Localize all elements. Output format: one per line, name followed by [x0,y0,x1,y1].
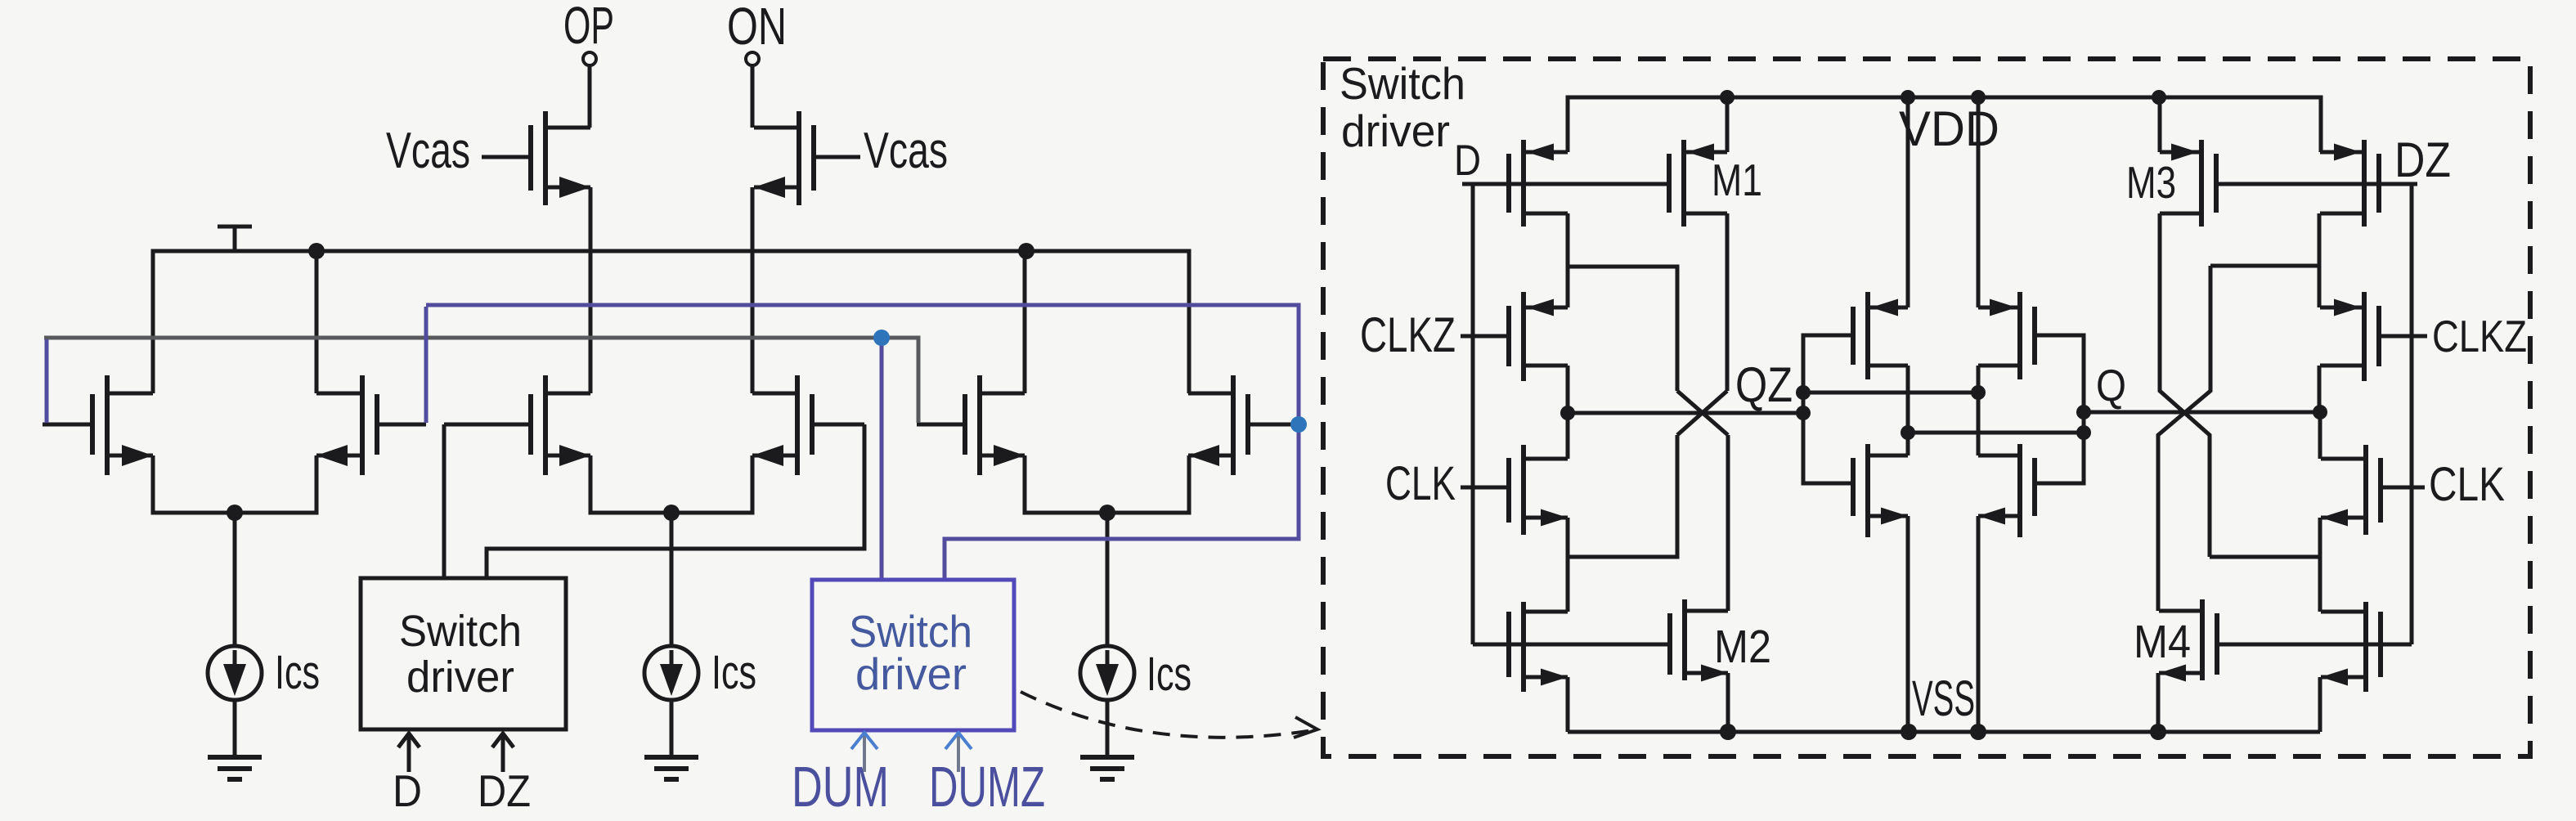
wire NR source down [1977,516,1981,732]
junction rail-pair1R [308,243,325,259]
transistor M4 NMOS [2215,643,2219,647]
wire driver1 pin2 to pair2R gate [487,424,864,578]
junction latch left out [1901,425,1915,440]
transistor cascode ON (Vcas) [814,155,860,159]
wire shared gate D row [1473,643,1668,647]
wire M1 source to VDD [1726,97,1730,152]
junction VSS M4 [2150,724,2166,740]
wire DZN source to VSS [2318,677,2322,732]
svg-text:M3: M3 [2126,157,2176,208]
transistor M3 PMOS [2216,182,2218,186]
wire CLKNR source path [2210,518,2320,557]
wire inverter2 out [2210,213,2319,307]
wire M4 source down [2156,673,2161,732]
wire CLKZPR drain down [2318,366,2322,412]
svg-text:CLK: CLK [1385,457,1456,510]
wire M2 source down [1726,673,1730,732]
dashed detail box [1323,59,2530,756]
wire drain rail [153,251,1189,393]
junction QZ a [1796,385,1811,400]
current source Ics 3 [1080,646,1134,700]
svg-text:M4: M4 [2134,616,2191,668]
wire pair3 tail down [1106,513,1110,646]
transistor pair2 right [812,423,864,427]
ground 1 [208,755,262,760]
transistor latch NMOS left [1849,482,1853,486]
wire CLKN source path [1568,435,1677,557]
dashed arrow head [1294,717,1317,738]
transistor pair3 left [917,423,965,427]
svg-text:driver: driver [406,653,514,702]
wire DN source to VSS [1566,677,1570,732]
wire CLKNR top [2318,412,2322,459]
junction Q right [2313,405,2327,419]
wire NL source down [1906,516,1910,732]
wire QZ to PR gate [1803,391,1978,395]
wire Ics2 to ground [670,699,674,757]
transistor DZ NMOS [2381,643,2412,647]
junction VDD PR [1971,90,1986,105]
wire M3 drain down [2160,213,2210,557]
junction pair1 tail [227,505,243,521]
wire QZ cross B [1677,391,1727,435]
svg-text:M2: M2 [1714,621,1771,673]
node DUMZ gate blue [1290,416,1307,433]
transistor M2 NMOS [1668,643,1670,647]
box switch driver 2 (blue) [812,580,1014,730]
svg-text:DZ: DZ [2394,132,2451,187]
svg-text:VSS: VSS [1912,671,1975,726]
input arrow DZ [492,734,514,772]
wire driver1 pin1 to pair2L gate [442,424,447,578]
input arrow DUM head [851,733,877,749]
transistor D NMOS [1473,643,1509,647]
svg-text:Q: Q [2096,360,2126,410]
input arrow D [398,734,420,772]
transistor pair1 right [377,423,426,427]
svg-text:Ics: Ics [275,646,320,699]
wire M2 drain up [1726,435,1730,611]
svg-text:VDD: VDD [1899,101,1999,156]
junction Q b [2076,425,2091,440]
wire inverter2 out down [2158,266,2210,611]
wire pair3 left drain [1023,251,1027,393]
transistor latch PMOS right [2035,334,2039,338]
wire CLKZP drain down [1566,366,1570,413]
wire PR source [1977,97,1981,307]
svg-text:Vcas: Vcas [864,123,948,179]
wire QZ cross A [1677,391,1728,435]
svg-text:QZ: QZ [1735,357,1793,412]
wire DZ vertical [2410,184,2414,644]
wire pair1 tail down [233,513,237,646]
terminal ON circle [746,52,759,65]
input arrow DUMZ head [945,733,972,749]
svg-text:driver: driver [1341,105,1450,156]
svg-text:D: D [393,765,422,816]
svg-text:Vcas: Vcas [386,123,470,179]
junction pair2 tail [663,505,680,521]
junction QZ b [1796,406,1811,420]
svg-text:D: D [1454,137,1481,185]
svg-text:DZ: DZ [478,765,531,816]
transistor CLK NMOS right [2381,486,2425,490]
wire cascode OP source down [589,187,593,251]
wire VSS rail [1568,730,2320,734]
svg-text:Switch: Switch [1340,58,1465,109]
node DUM junction blue [873,330,890,346]
dashed arrow to detail [1021,692,1313,738]
transistor DZ PMOS [2379,182,2417,186]
transistor pair1 left [43,423,92,427]
junction rail-pair3L [1018,243,1034,259]
ground 3 [1080,755,1134,760]
transistor CLK NMOS left [1461,486,1509,490]
wire QZ horizontal [1568,411,1803,415]
transistor M1 PMOS [1669,182,1671,186]
wire shared gate M3/DZ row [2216,182,2417,186]
wire CLKN top [1566,413,1570,459]
wire DN top [1566,557,1570,612]
box switch driver 1 [361,578,566,729]
input arrow DUMZ shaft [957,734,960,772]
wire Ics3 to ground [1106,699,1110,757]
wire QZ node vertical [1803,335,1849,483]
wire pair1 right drain [315,251,319,393]
svg-text:M1: M1 [1712,155,1762,205]
svg-text:OP: OP [563,0,614,55]
wire inverter1 out [1568,213,1677,391]
junction VSS NR [1970,724,1986,740]
junction QZ left [1560,406,1575,420]
wire shared gate D/M1 row [1462,182,1671,186]
wire Ics1 to ground [233,699,237,757]
svg-text:DUMZ: DUMZ [929,755,1045,819]
junction VSS NL [1901,724,1917,740]
wire pair2 tail [590,455,752,513]
svg-text:Switch: Switch [399,607,522,656]
junction Q a [2076,405,2091,419]
wire M1 drain down [1726,213,1730,391]
wire VDD rail [1568,97,2321,152]
wire OP stub [588,65,592,128]
wire pair1 tail [153,455,316,513]
ground 2 [644,755,698,760]
wire pair2 tail down [670,513,674,646]
svg-text:Ics: Ics [1147,648,1192,701]
wire Q horizontal [2084,410,2320,415]
svg-text:DUM: DUM [792,755,889,819]
wire PL source [1906,97,1910,307]
transistor pair2 left [444,423,531,427]
svg-text:ON: ON [727,0,787,56]
wire pair2 right drain [751,251,755,393]
wire latch right out [1977,366,1981,455]
wire DUMZ net purple [426,305,1299,580]
svg-text:CLKZ: CLKZ [2432,311,2527,361]
transistor CLKZ PMOS left [1461,334,1509,339]
wire Q node vertical [2039,335,2084,483]
transistor pair3 right [1248,423,1299,427]
wire M3 source to VDD [2158,97,2162,152]
junction VSS M2 [1720,724,1736,740]
transistor cascode OP (Vcas) [482,155,531,159]
junction latch right out [1971,385,1986,400]
current source Ics 2 [644,646,698,700]
bias stub T [218,227,252,251]
transistor latch PMOS left [1849,334,1853,338]
junction VDD M1 [1720,90,1735,105]
transistor CLKZ PMOS right [2379,334,2427,339]
wire pair2 left drain [589,251,593,393]
wire DZN top [2318,557,2322,612]
wire DUM drop to driver [880,338,884,580]
current source Ics 1 [208,646,262,700]
input arrow DUM shaft [863,734,866,772]
svg-text:CLK: CLK [2429,458,2505,511]
transistor D PMOS [1462,182,1509,186]
wire latch cross to right [1908,431,2084,435]
junction VDD M3 [2152,90,2166,105]
junction pair3 tail [1099,505,1115,521]
wire pair3 tail [1025,455,1189,513]
wire latch left out [1906,366,1910,455]
wire ON stub [751,65,755,128]
wire shared gate DZ row [2217,643,2412,647]
svg-text:driver: driver [855,648,967,699]
svg-text:Ics: Ics [711,646,756,699]
wire cascode ON source down [751,187,755,251]
transistor latch NMOS right [2035,482,2039,486]
svg-text:CLKZ: CLKZ [1360,307,1456,362]
terminal OP circle [583,52,596,65]
junction VDD PL [1901,90,1915,105]
wire D vertical [1471,184,1475,644]
wire DUM net grey [44,338,918,423]
wire DUM far-left purple drop [45,339,49,423]
